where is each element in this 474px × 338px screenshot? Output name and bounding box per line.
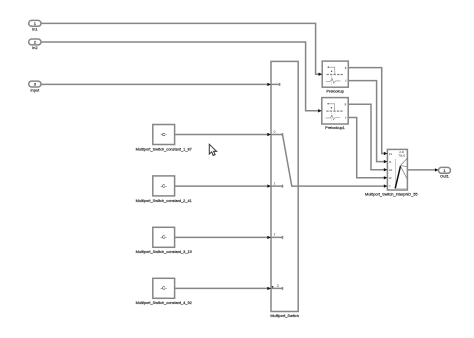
switch port 0 marker <box>271 130 283 136</box>
svg-text:f2: f2 <box>389 176 392 180</box>
outport Out1 <box>439 167 451 178</box>
wire C2 to switch port1 <box>175 185 268 187</box>
svg-text:Multiport_Switch_constant_3_15: Multiport_Switch_constant_3_15 <box>136 249 192 254</box>
svg-text:Multiport_Switch: Multiport_Switch <box>270 313 299 318</box>
arrowheads <box>267 73 438 291</box>
wire In2 to Prelookup1 <box>41 42 318 111</box>
wire C1 to switch port0 <box>175 134 268 136</box>
wire C4 to switch port3 <box>175 287 268 289</box>
switch control port marker <box>271 83 280 86</box>
constant C4 <box>136 278 192 305</box>
svg-text:k2: k2 <box>389 168 393 172</box>
svg-text:-C-: -C- <box>161 183 168 188</box>
svg-text:f1: f1 <box>389 160 392 164</box>
Prelookup icon <box>326 67 343 85</box>
constant C1 <box>136 125 192 152</box>
constant C2 <box>136 176 192 203</box>
svg-text:Prelookup1: Prelookup1 <box>325 125 345 130</box>
interpND icon <box>395 158 407 188</box>
svg-text:In2: In2 <box>32 45 38 50</box>
svg-text:In1: In1 <box>32 27 38 32</box>
svg-text:Multiport_Switch_constant_2_41: Multiport_Switch_constant_2_41 <box>136 198 192 203</box>
svg-text:Multiport_Switch_constant_1_87: Multiport_Switch_constant_1_87 <box>136 146 192 151</box>
svg-text:Out1: Out1 <box>440 174 449 179</box>
wire Prelookup1 k to interpND k2 <box>348 104 384 170</box>
wire Prelookup k to interpND k1 <box>348 68 384 154</box>
wire switch out to interpND T <box>298 185 384 187</box>
svg-text:2: 2 <box>274 233 276 237</box>
svg-text:Multiport_Switch_constant_4_92: Multiport_Switch_constant_4_92 <box>136 300 192 305</box>
switch port 3 marker <box>271 284 283 290</box>
wire Prelookup f to interpND f1 <box>348 81 384 162</box>
Prelookup1 icon <box>326 103 343 121</box>
mouse cursor <box>209 144 216 155</box>
svg-text:T: T <box>389 184 391 188</box>
inport In2 <box>29 39 41 50</box>
Prelookup1 block <box>322 98 348 131</box>
svg-text:-C-: -C- <box>161 286 168 291</box>
constant C3 <box>136 227 192 254</box>
switch port 1 marker <box>271 181 283 187</box>
wire In1 to Prelookup <box>41 23 319 74</box>
Prelookup block <box>322 61 348 94</box>
svg-text:Input: Input <box>30 87 40 92</box>
svg-text:k: k <box>345 103 347 107</box>
switch port 2 marker <box>271 233 283 239</box>
svg-text:0: 0 <box>274 130 276 134</box>
svg-text:f: f <box>345 116 346 120</box>
inport Input <box>29 81 41 92</box>
svg-text:-C-: -C- <box>161 235 168 240</box>
svg-text:T[k,f]: T[k,f] <box>398 153 405 157</box>
svg-text:k: k <box>345 66 347 70</box>
wire Prelookup1 f to interpND f2 <box>348 118 384 178</box>
svg-text:f: f <box>346 79 347 83</box>
wire Input to switch control <box>41 83 267 85</box>
svg-text:Multiport_Switch_interpND_55: Multiport_Switch_interpND_55 <box>365 191 418 196</box>
svg-text:3: 3 <box>277 284 279 288</box>
inport In1 <box>29 20 41 31</box>
svg-text:-C-: -C- <box>161 132 168 137</box>
svg-text:k1: k1 <box>389 152 393 156</box>
svg-text:1: 1 <box>274 181 276 185</box>
wire interpND out to Out1 <box>407 169 435 171</box>
wire C3 to switch port2 <box>175 236 268 238</box>
interpND block <box>365 149 418 196</box>
svg-text:*: * <box>272 285 274 290</box>
svg-text:Prelookup: Prelookup <box>326 89 344 94</box>
switch selection diagonal <box>283 135 299 187</box>
multiport switch block <box>270 61 299 318</box>
